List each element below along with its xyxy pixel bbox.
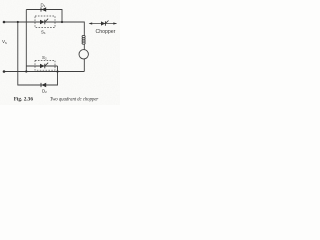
- inductor L (4 loops): [82, 33, 85, 50]
- junction dot source +: [3, 21, 6, 24]
- motor circle M: [79, 50, 88, 59]
- thyristor S2 (points right, gate up-right): [40, 63, 48, 69]
- svg-text:Two quadrant dc chopper: Two quadrant dc chopper: [50, 97, 98, 102]
- wire D1 branch top loop: [26, 10, 62, 23]
- wire bottom rail: [4, 71, 84, 73]
- junction dot bottom rail right vertical: [56, 70, 58, 72]
- svg-text:S1: S1: [41, 30, 46, 36]
- diode D1 (points left): [41, 7, 46, 12]
- junction dot bottom rail left vertical: [25, 70, 27, 72]
- chopper S1 dashed box: [35, 16, 55, 28]
- wire top rail from source plus terminal to load corner: [4, 22, 84, 33]
- wire S2 branch: [26, 65, 57, 67]
- diode D2 (points left): [41, 83, 46, 88]
- junction dot top rail / D2 vertical: [17, 21, 19, 23]
- svg-text:S2: S2: [42, 55, 47, 61]
- svg-text:Vs: Vs: [2, 39, 7, 45]
- wire left long vertical: [25, 10, 27, 72]
- legend chopper symbol: double arrow with thyristor: [89, 21, 117, 26]
- junction dot source minus: [3, 70, 6, 73]
- thyristor S1 (points right, gate up-right): [40, 19, 48, 25]
- svg-text:D1: D1: [41, 2, 46, 8]
- junction dot node A top: [61, 21, 63, 23]
- svg-text:D2: D2: [42, 88, 47, 94]
- wire load bottom: [83, 59, 85, 72]
- chopper S2 dashed box: [35, 60, 55, 70]
- svg-text:Chopper: Chopper: [96, 29, 116, 35]
- svg-text:Fig. 2.36: Fig. 2.36: [14, 96, 34, 102]
- wire D2 branch via left vertical x=17.8: [18, 22, 58, 85]
